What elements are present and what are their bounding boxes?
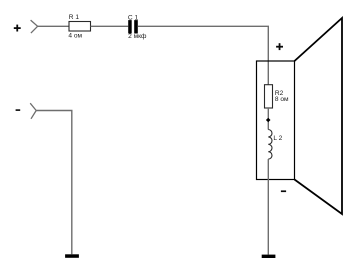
connector chevron (+ input) (31, 20, 38, 33)
svg-text:L 2: L 2 (273, 135, 282, 142)
resistor R1 (69, 22, 91, 32)
wire (38, 25, 69, 27)
capacitor C1 (128, 20, 138, 33)
svg-text:4 ом: 4 ом (68, 33, 82, 40)
node - (speaker minus terminal) (281, 190, 286, 192)
wire (267, 108, 269, 130)
junction dot (266, 118, 271, 123)
connector chevron (- input) (30, 103, 36, 119)
node + (plus input terminal label) (14, 25, 21, 32)
svg-text:2 мкф: 2 мкф (128, 33, 147, 40)
inductor L2 (268, 130, 272, 160)
svg-text:8 ом: 8 ом (275, 96, 289, 103)
svg-text:R 1: R 1 (69, 14, 80, 21)
ground (right) (262, 255, 276, 258)
wire (267, 159, 269, 255)
resistor R2 (265, 85, 273, 108)
wire (36, 111, 72, 255)
node - (minus input terminal label) (16, 109, 21, 111)
speaker body rectangle (257, 61, 295, 180)
node + (speaker plus terminal) (276, 43, 283, 50)
speaker cone (295, 18, 343, 214)
wire (91, 25, 129, 27)
ground (left) (65, 254, 79, 257)
wire (138, 26, 268, 84)
svg-text:C 1: C 1 (128, 14, 139, 21)
